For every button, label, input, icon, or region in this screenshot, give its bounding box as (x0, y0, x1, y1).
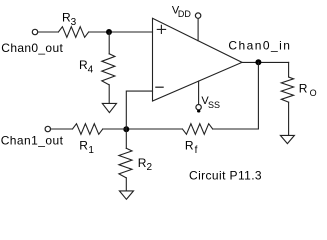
terminal VSS (196, 105, 201, 110)
wire feedback down from Chan0_in node (213, 62, 259, 129)
wire bottom junction to op-amp minus input (126, 91, 152, 129)
ground below R4 (102, 103, 116, 112)
svg-text:Chan0_in: Chan0_in (228, 38, 291, 52)
wire RO to ground (288, 102, 290, 135)
op-amp minus input symbol (156, 86, 163, 88)
terminal Chan1_out (45, 126, 50, 131)
resistor R1 (73, 124, 103, 135)
wire op-amp output (242, 61, 289, 63)
wire R1 to bottom junction (103, 128, 127, 130)
wire VDD to op-amp top (197, 18, 199, 40)
wire terminal to R3 (38, 31, 58, 33)
svg-text:Chan1_out: Chan1_out (1, 134, 64, 148)
resistor RO (281, 77, 293, 102)
wire junction to R4 (108, 32, 110, 54)
resistor R2 (119, 148, 132, 178)
svg-text:Circuit P11.3: Circuit P11.3 (189, 169, 262, 183)
svg-text:R1: R1 (79, 139, 94, 156)
svg-text:R3: R3 (62, 11, 77, 28)
svg-text:R4: R4 (79, 58, 94, 75)
wire bottom junction to R2 (125, 129, 127, 148)
wire R2 to ground (125, 178, 127, 191)
resistor R3 (58, 27, 88, 38)
ground below RO (280, 135, 294, 143)
terminal VDD (195, 13, 200, 18)
wire terminal to R1 (51, 128, 73, 130)
svg-text:VSS: VSS (201, 95, 220, 110)
wire Rf to bottom junction (126, 128, 182, 130)
wire R4 to ground (108, 85, 110, 104)
svg-text:R2: R2 (138, 156, 153, 173)
svg-text:RO: RO (299, 81, 317, 98)
node junction bottom (R1/R2/Rf) (123, 126, 129, 132)
terminal Chan0_out (32, 29, 37, 34)
svg-text:VDD: VDD (172, 4, 191, 19)
node Chan0_in junction (255, 59, 261, 65)
resistor R4 (102, 54, 115, 85)
ground below R2 (119, 191, 133, 199)
wire op-amp bottom to VSS (198, 81, 200, 104)
VSS stub blob (197, 110, 200, 113)
node junction top (R3/R4) (106, 29, 112, 35)
wire R3 to op-amp + input (89, 31, 153, 33)
wire output corner down to RO (288, 62, 290, 77)
op-amp plus input symbol (157, 25, 165, 33)
op-amp U1 (153, 18, 243, 101)
svg-text:Chan0_out: Chan0_out (1, 41, 63, 55)
resistor Rf (182, 124, 212, 135)
svg-text:Rf: Rf (185, 139, 198, 156)
